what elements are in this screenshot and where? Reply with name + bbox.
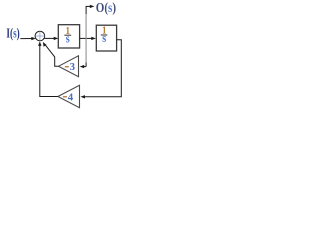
svg-text:s: s	[102, 31, 106, 45]
svg-text:O(s): O(s)	[96, 0, 116, 15]
svg-text:3: 3	[70, 61, 76, 73]
svg-text:I(s): I(s)	[6, 26, 19, 41]
svg-text:s: s	[66, 31, 70, 45]
svg-text:4: 4	[68, 91, 74, 103]
